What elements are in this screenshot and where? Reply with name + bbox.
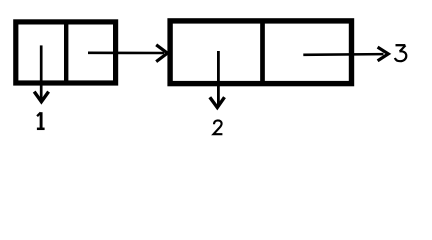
arrowhead of N2 down arrow [210, 97, 225, 107]
node box N1 (left node, two cells) [16, 22, 116, 83]
wire: down arrow shaft from N2 data cell [217, 51, 220, 105]
arrowhead of N1->N2 arrow [156, 45, 167, 62]
wire: down arrow shaft from N1 data cell [40, 45, 43, 99]
divider of node N1 [64, 20, 68, 84]
label 2 (value of second node) [214, 120, 223, 134]
divider of node N2 [260, 19, 265, 85]
label 1 (value of first node) [37, 112, 45, 129]
arrowhead of N2 out arrow [378, 47, 389, 61]
wire: next-pointer arrow shaft from N1 to N2 [88, 51, 164, 54]
wire: out arrow shaft from N2 to label 3 [303, 53, 383, 56]
arrowhead of N1 down arrow [34, 92, 48, 102]
node box N2 (right node, two cells) [170, 21, 351, 84]
label 3 (pointed-to value) [395, 45, 406, 61]
